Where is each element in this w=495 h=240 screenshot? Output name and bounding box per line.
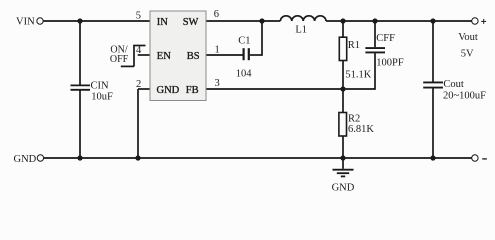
junction dot GND/CIN: [77, 155, 82, 160]
inductor L1: [280, 16, 326, 21]
junction dot VOUT/R1: [340, 18, 345, 23]
terminal - output: [472, 155, 478, 161]
svg-text:6.81K: 6.81K: [348, 124, 374, 135]
svg-text:51.1K: 51.1K: [345, 69, 371, 80]
capacitor CIN plates: [71, 85, 91, 89]
wire CIN branch lower (CIN bottom plate to GND rail): [79, 91, 81, 159]
wire IC pin 6 SW to inductor L1 left: [206, 20, 280, 22]
wire CFF bottom to FB net corner: [374, 53, 376, 90]
svg-text:BS: BS: [187, 51, 200, 62]
wire CFF top branch from VOUT rail: [374, 21, 376, 47]
wire R2 bottom to GND rail: [342, 136, 344, 158]
junction dot VOUT/CFF: [372, 18, 377, 23]
resistor R1 body: [339, 37, 346, 60]
wire Cout top branch from VOUT rail: [432, 21, 434, 82]
svg-text:C1: C1: [238, 35, 250, 46]
terminal + output: [472, 18, 478, 24]
svg-text:EN: EN: [157, 51, 171, 62]
wire C1 right plate to corner x=262: [250, 54, 262, 56]
svg-text:10uF: 10uF: [91, 91, 113, 102]
svg-text:GND: GND: [332, 182, 355, 193]
svg-text:2: 2: [136, 79, 141, 90]
wire C1 corner up to SW net: [261, 21, 263, 56]
junction dot GND/pin2: [135, 155, 140, 160]
wire IC pin 2 GND stub: [138, 88, 150, 90]
label +: [481, 19, 486, 24]
junction dot FB node: [340, 86, 345, 91]
svg-text:6: 6: [214, 9, 219, 20]
svg-text:L1: L1: [295, 24, 307, 35]
svg-text:CFF: CFF: [376, 33, 395, 44]
terminal VIN: [37, 18, 43, 24]
wire ON/OFF bracket foot under OFF: [121, 65, 134, 67]
svg-text:GND: GND: [157, 85, 180, 96]
capacitor CFF plates: [365, 48, 385, 52]
junction dot GND/Cout: [430, 155, 435, 160]
wire VIN terminal to IC pin 5 (top rail left, net VIN): [43, 20, 150, 22]
label -: [482, 158, 487, 160]
svg-text:1: 1: [215, 45, 220, 56]
wire EN pin stub (pin 4): [138, 54, 150, 56]
svg-text:5: 5: [136, 11, 141, 22]
svg-text:SW: SW: [183, 17, 199, 28]
op-amp U1 regulator IC body: [150, 11, 206, 101]
wire FB junction down to R2 top: [342, 89, 344, 113]
svg-text:104: 104: [236, 69, 253, 80]
wire IC pin 3 FB to CFF bottom corner (net FB): [206, 88, 375, 90]
svg-text:VIN: VIN: [16, 17, 35, 28]
wire IC pin 2 down to GND rail: [137, 89, 139, 158]
wire L1 right to + output terminal (net VOUT): [326, 20, 472, 22]
wire R1 top branch from VOUT rail: [342, 21, 344, 37]
junction dot GND/R2: [340, 155, 345, 160]
svg-text:GND: GND: [14, 154, 37, 165]
wire GND rail bottom: [44, 157, 472, 159]
svg-text:Cout: Cout: [443, 79, 464, 90]
capacitor Cout plates: [423, 82, 443, 87]
svg-text:4: 4: [136, 45, 142, 56]
svg-text:IN: IN: [157, 17, 168, 28]
svg-text:R1: R1: [348, 40, 360, 51]
svg-text:FB: FB: [186, 85, 199, 96]
wire ON/OFF bracket vertical: [133, 46, 135, 67]
wire ON/OFF bracket top horizontal over pin 4: [133, 45, 145, 47]
svg-text:100PF: 100PF: [376, 57, 404, 68]
junction dot VIN/CIN: [77, 18, 82, 23]
svg-text:Vout: Vout: [458, 32, 478, 43]
wire Cout bottom to GND rail: [432, 88, 434, 158]
junction dot VOUT/Cout: [430, 18, 435, 23]
svg-text:20~100uF: 20~100uF: [443, 91, 486, 102]
wire ground symbol stub: [342, 158, 344, 169]
junction dot SW/C1: [259, 18, 264, 23]
svg-text:5V: 5V: [461, 48, 474, 59]
resistor R2 body: [339, 113, 347, 137]
svg-text:CIN: CIN: [91, 80, 110, 91]
svg-text:3: 3: [215, 78, 220, 89]
capacitor C1 plates (vertical): [244, 48, 249, 60]
wire R1 bottom to FB junction: [342, 61, 344, 90]
ground symbol: [333, 170, 354, 177]
wire IC pin 1 BS to C1 left plate: [206, 54, 243, 56]
wire CIN branch upper (x=80 down to CIN top plate): [79, 21, 81, 85]
terminal GND input: [37, 155, 43, 161]
svg-text:OFF: OFF: [110, 54, 129, 65]
